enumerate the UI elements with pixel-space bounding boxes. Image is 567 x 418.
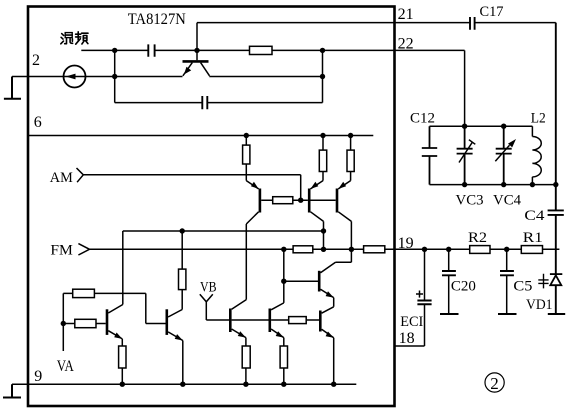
svg-text:FM: FM xyxy=(50,243,73,259)
svg-text:TA8127N: TA8127N xyxy=(128,11,186,28)
svg-text:VC4: VC4 xyxy=(493,193,522,209)
svg-text:19: 19 xyxy=(398,235,414,252)
svg-text:2: 2 xyxy=(490,374,499,393)
svg-text:9: 9 xyxy=(34,368,42,385)
svg-text:VB: VB xyxy=(200,280,217,296)
svg-text:6: 6 xyxy=(34,114,42,131)
svg-text:C17: C17 xyxy=(480,4,504,20)
svg-text:AM: AM xyxy=(50,170,73,186)
svg-text:C5: C5 xyxy=(513,278,532,294)
svg-text:C20: C20 xyxy=(451,278,476,294)
svg-text:22: 22 xyxy=(398,35,414,52)
svg-text:L2: L2 xyxy=(531,111,546,127)
svg-text:C4: C4 xyxy=(524,208,545,224)
svg-text:R1: R1 xyxy=(523,230,543,246)
svg-text:C12: C12 xyxy=(410,111,435,127)
svg-text:18: 18 xyxy=(399,330,415,347)
svg-text:2: 2 xyxy=(32,52,40,69)
svg-text:21: 21 xyxy=(398,6,414,23)
svg-text:ECI: ECI xyxy=(400,314,423,330)
svg-text:VA: VA xyxy=(57,358,74,375)
svg-text:VD1: VD1 xyxy=(526,297,553,313)
svg-text:R2: R2 xyxy=(468,230,487,246)
svg-text:VC3: VC3 xyxy=(456,193,484,209)
